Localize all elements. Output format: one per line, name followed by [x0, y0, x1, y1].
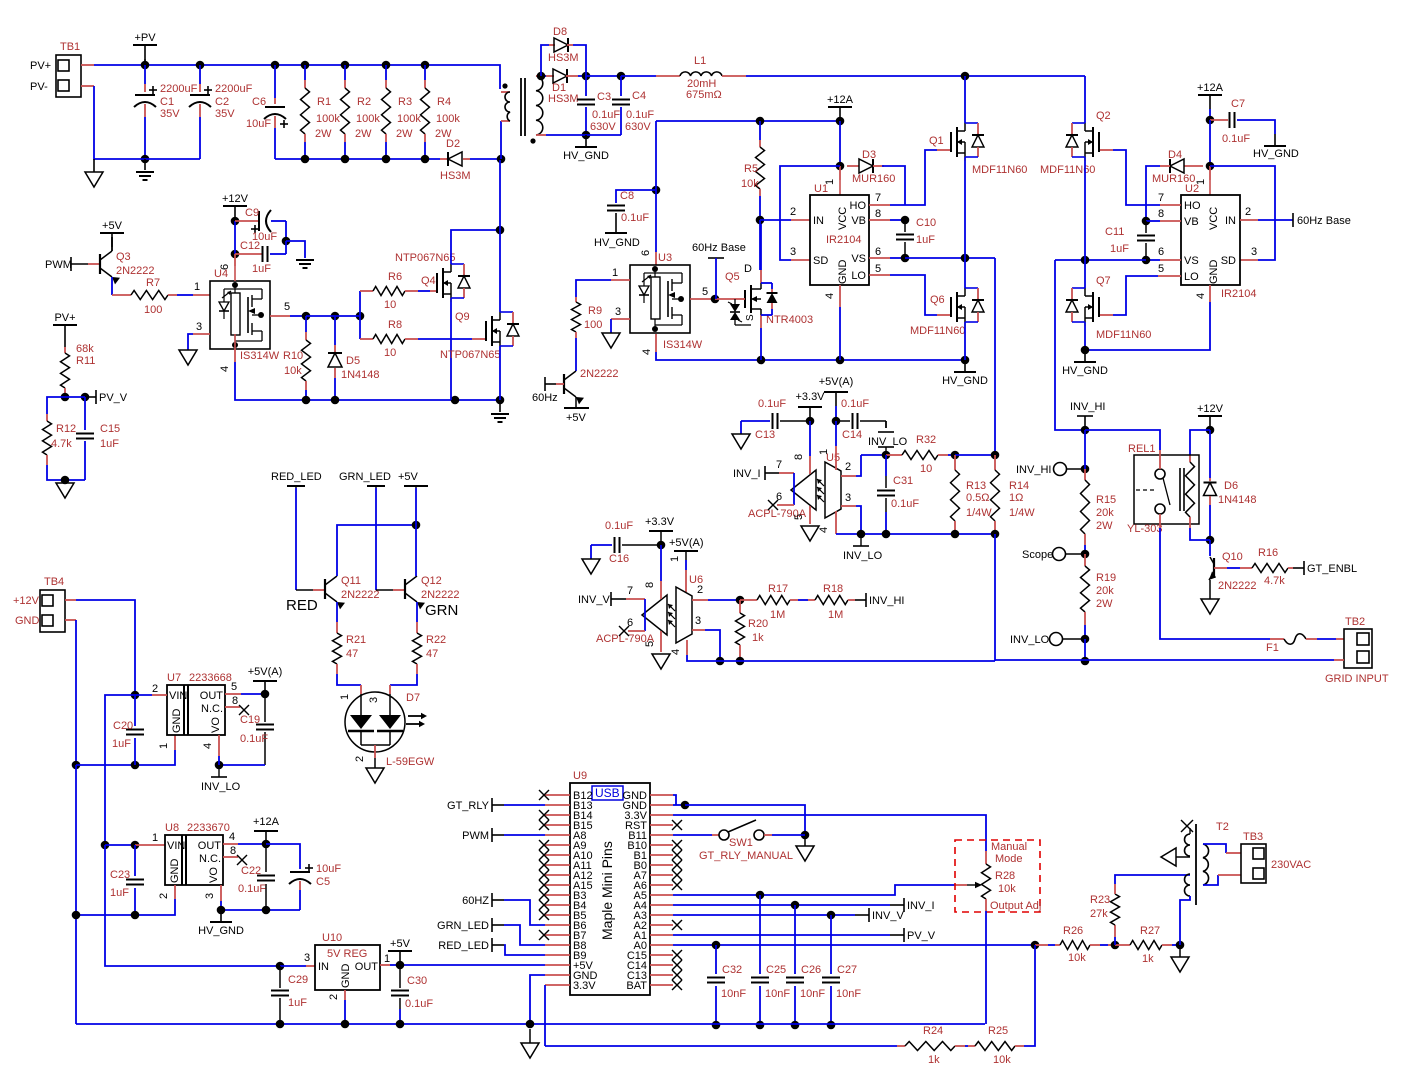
svg-text:N.C.: N.C. [199, 853, 221, 865]
svg-text:MDF11N60: MDF11N60 [972, 164, 1027, 176]
svg-text:INV_I: INV_I [907, 900, 935, 912]
svg-text:TB1: TB1 [60, 41, 80, 53]
svg-text:10nF: 10nF [765, 988, 790, 1000]
svg-text:SW1: SW1 [729, 837, 753, 849]
svg-text:3: 3 [790, 246, 796, 258]
svg-text:60Hz: 60Hz [532, 392, 558, 404]
svg-text:C4: C4 [632, 90, 646, 102]
svg-text:0.1uF: 0.1uF [841, 398, 869, 410]
svg-text:10: 10 [384, 347, 396, 359]
svg-text:5: 5 [702, 286, 708, 298]
svg-text:HV_GND: HV_GND [1062, 365, 1108, 377]
svg-text:IS314W: IS314W [240, 350, 280, 362]
svg-text:PV_V: PV_V [907, 930, 936, 942]
svg-text:1/4W: 1/4W [966, 507, 992, 519]
svg-text:TB3: TB3 [1243, 831, 1263, 843]
svg-text:10uF: 10uF [316, 863, 341, 875]
svg-text:10nF: 10nF [836, 988, 861, 1000]
svg-text:PV_V: PV_V [99, 392, 128, 404]
svg-text:3: 3 [695, 615, 701, 627]
svg-text:VIN: VIN [167, 840, 185, 852]
svg-text:3: 3 [845, 492, 851, 504]
svg-text:1uF: 1uF [1110, 243, 1129, 255]
svg-text:1N4148: 1N4148 [341, 369, 380, 381]
svg-text:+12A: +12A [1197, 82, 1224, 94]
svg-text:U9: U9 [573, 770, 587, 782]
svg-text:8: 8 [232, 695, 238, 707]
svg-text:4.7k: 4.7k [1264, 575, 1285, 587]
svg-text:VO: VO [210, 717, 222, 733]
svg-text:GT_RLY_MANUAL: GT_RLY_MANUAL [699, 850, 793, 862]
svg-text:REL1: REL1 [1128, 443, 1156, 455]
svg-text:R4: R4 [437, 96, 451, 108]
svg-text:RED: RED [286, 597, 318, 614]
svg-text:27k: 27k [1090, 908, 1108, 920]
svg-text:C26: C26 [801, 964, 821, 976]
svg-text:3: 3 [196, 321, 202, 333]
svg-text:PWM: PWM [45, 259, 72, 271]
svg-text:+12V: +12V [13, 595, 40, 607]
svg-text:D6: D6 [1224, 480, 1238, 492]
svg-text:4: 4 [202, 743, 214, 749]
svg-text:R14: R14 [1009, 480, 1029, 492]
svg-text:+5V: +5V [566, 412, 587, 424]
svg-text:+5V(A): +5V(A) [669, 537, 704, 549]
svg-text:Mode: Mode [995, 853, 1023, 865]
svg-text:1uF: 1uF [100, 438, 119, 450]
svg-text:BAT: BAT [626, 980, 647, 992]
svg-text:0.1uF: 0.1uF [238, 883, 266, 895]
svg-text:5: 5 [793, 514, 805, 520]
svg-text:D3: D3 [862, 149, 876, 161]
svg-text:RED_LED: RED_LED [271, 471, 322, 483]
svg-text:10: 10 [384, 299, 396, 311]
svg-text:D4: D4 [1168, 149, 1182, 161]
svg-text:35V: 35V [215, 108, 235, 120]
svg-text:MUR160: MUR160 [852, 173, 895, 185]
svg-text:Q12: Q12 [421, 575, 442, 587]
svg-text:GRN_LED: GRN_LED [339, 471, 391, 483]
svg-text:NTP067N65: NTP067N65 [395, 252, 456, 264]
svg-text:R11: R11 [76, 355, 95, 367]
svg-text:C1: C1 [160, 96, 174, 108]
svg-text:GRN_LED: GRN_LED [437, 920, 489, 932]
svg-text:2: 2 [152, 683, 158, 695]
svg-text:INV_V: INV_V [578, 594, 610, 606]
svg-text:VB: VB [1184, 216, 1199, 228]
svg-text:2N2222: 2N2222 [116, 265, 155, 277]
svg-text:C27: C27 [837, 964, 857, 976]
svg-text:10nF: 10nF [800, 988, 825, 1000]
svg-text:OUT: OUT [198, 840, 222, 852]
svg-text:PV+: PV+ [30, 60, 51, 72]
svg-text:3: 3 [304, 952, 310, 964]
svg-text:1: 1 [384, 953, 390, 965]
svg-text:GT_ENBL: GT_ENBL [1307, 563, 1357, 575]
svg-text:4: 4 [229, 831, 235, 843]
svg-text:4: 4 [641, 349, 653, 355]
svg-text:0.1uF: 0.1uF [1222, 133, 1250, 145]
svg-text:47: 47 [346, 648, 358, 660]
svg-text:2N2222: 2N2222 [421, 589, 460, 601]
svg-text:2233670: 2233670 [187, 822, 230, 834]
svg-text:HV_GND: HV_GND [563, 150, 609, 162]
svg-text:C12: C12 [240, 240, 260, 252]
svg-text:2: 2 [790, 206, 796, 218]
svg-text:2200uF: 2200uF [215, 83, 253, 95]
svg-text:1uF: 1uF [252, 263, 271, 275]
svg-text:C13: C13 [755, 429, 775, 441]
svg-text:R1: R1 [317, 96, 331, 108]
svg-text:IS314W: IS314W [663, 339, 703, 351]
svg-text:2N2222: 2N2222 [341, 589, 380, 601]
svg-text:R7: R7 [146, 277, 160, 289]
svg-text:+12V: +12V [1197, 403, 1224, 415]
svg-text:R25: R25 [988, 1025, 1008, 1037]
svg-text:Q6: Q6 [930, 294, 945, 306]
svg-text:HV_GND: HV_GND [1253, 148, 1299, 160]
svg-text:SD: SD [813, 255, 828, 267]
svg-text:60Hz Base: 60Hz Base [692, 242, 746, 254]
svg-text:675mΩ: 675mΩ [686, 89, 722, 101]
svg-text:Q2: Q2 [1096, 110, 1111, 122]
svg-text:C16: C16 [609, 553, 629, 565]
svg-text:35V: 35V [160, 108, 180, 120]
svg-text:R27: R27 [1140, 925, 1160, 937]
svg-text:R6: R6 [388, 271, 402, 283]
svg-text:VIN: VIN [169, 690, 187, 702]
svg-text:0.1uF: 0.1uF [240, 733, 268, 745]
svg-text:+5V: +5V [398, 471, 419, 483]
svg-text:5: 5 [231, 681, 237, 693]
svg-text:6: 6 [627, 617, 633, 629]
svg-text:7: 7 [875, 192, 881, 204]
svg-text:1Ω: 1Ω [1009, 492, 1023, 504]
svg-text:Manual: Manual [991, 841, 1027, 853]
svg-text:C30: C30 [407, 975, 427, 987]
svg-text:INV_LO: INV_LO [201, 781, 241, 793]
svg-text:0.1uF: 0.1uF [605, 520, 633, 532]
svg-text:GND: GND [1208, 260, 1220, 285]
svg-text:1uF: 1uF [112, 738, 131, 750]
svg-text:+5V: +5V [102, 220, 123, 232]
svg-text:R2: R2 [357, 96, 371, 108]
svg-text:100k: 100k [397, 113, 421, 125]
svg-text:0.1uF: 0.1uF [621, 212, 649, 224]
svg-text:7: 7 [776, 459, 782, 471]
svg-text:C3: C3 [597, 91, 611, 103]
svg-text:C19: C19 [240, 714, 260, 726]
svg-text:+5V(A): +5V(A) [819, 376, 854, 388]
svg-text:1uF: 1uF [288, 997, 307, 1009]
svg-text:8: 8 [793, 454, 805, 460]
svg-text:N.C.: N.C. [201, 703, 223, 715]
svg-text:C7: C7 [1231, 98, 1245, 110]
svg-text:U3: U3 [658, 252, 672, 264]
svg-text:INV_HI: INV_HI [869, 595, 904, 607]
svg-text:Q11: Q11 [341, 575, 361, 587]
svg-text:8: 8 [644, 582, 656, 588]
svg-text:0.5Ω: 0.5Ω [966, 492, 990, 504]
svg-text:2W: 2W [1096, 520, 1113, 532]
svg-text:S: S [745, 314, 756, 321]
svg-text:5: 5 [284, 301, 290, 313]
svg-text:Q3: Q3 [116, 251, 131, 263]
svg-text:INV_LO: INV_LO [1010, 634, 1050, 646]
svg-text:4: 4 [1195, 293, 1207, 299]
svg-text:+12A: +12A [253, 816, 280, 828]
svg-text:5: 5 [875, 263, 881, 275]
svg-text:C25: C25 [766, 964, 786, 976]
svg-text:LO: LO [1184, 271, 1199, 283]
svg-text:60Hz Base: 60Hz Base [1297, 215, 1351, 227]
svg-text:D8: D8 [553, 26, 567, 38]
svg-text:HV_GND: HV_GND [198, 925, 244, 937]
svg-text:INV_V: INV_V [872, 910, 904, 922]
svg-text:5: 5 [644, 641, 656, 647]
svg-text:+3.3V: +3.3V [795, 391, 825, 403]
svg-text:U10: U10 [322, 932, 342, 944]
svg-text:47: 47 [426, 648, 438, 660]
svg-text:1: 1 [669, 556, 681, 562]
svg-text:MDF11N60: MDF11N60 [1096, 329, 1151, 341]
svg-text:20k: 20k [1096, 507, 1114, 519]
svg-text:R17: R17 [768, 583, 788, 595]
svg-text:PWM: PWM [462, 830, 489, 842]
svg-text:R9: R9 [588, 305, 602, 317]
svg-text:R10: R10 [283, 350, 303, 362]
svg-text:INV_I: INV_I [733, 468, 761, 480]
svg-text:1: 1 [339, 694, 351, 700]
svg-text:C20: C20 [113, 720, 133, 732]
svg-text:4: 4 [818, 527, 830, 533]
svg-text:630V: 630V [590, 121, 616, 133]
svg-text:1: 1 [158, 743, 170, 749]
svg-text:HV_GND: HV_GND [594, 237, 640, 249]
svg-text:2200uF: 2200uF [160, 83, 198, 95]
svg-text:Maple Mini Pins: Maple Mini Pins [599, 841, 615, 940]
svg-text:+3.3V: +3.3V [645, 516, 675, 528]
svg-text:C15: C15 [100, 423, 120, 435]
svg-text:100k: 100k [316, 113, 340, 125]
svg-text:VCC: VCC [837, 207, 849, 230]
svg-text:GRN: GRN [425, 602, 458, 619]
svg-text:8: 8 [1158, 208, 1164, 220]
svg-text:TB4: TB4 [44, 576, 64, 588]
svg-text:4: 4 [219, 366, 231, 372]
svg-text:6: 6 [1158, 246, 1164, 258]
svg-text:20k: 20k [1096, 585, 1114, 597]
svg-text:VO: VO [208, 867, 220, 883]
svg-text:D5: D5 [346, 355, 360, 367]
svg-text:VB: VB [851, 215, 866, 227]
svg-text:R20: R20 [748, 618, 768, 630]
svg-text:Q10: Q10 [1222, 551, 1243, 563]
svg-text:C6: C6 [252, 96, 266, 108]
svg-text:R18: R18 [823, 583, 843, 595]
svg-text:1/4W: 1/4W [1009, 507, 1035, 519]
svg-text:Q1: Q1 [929, 135, 944, 147]
svg-text:YL-303: YL-303 [1127, 523, 1162, 535]
svg-text:1k: 1k [928, 1054, 940, 1066]
svg-text:R15: R15 [1096, 494, 1116, 506]
svg-text:R28: R28 [995, 870, 1015, 882]
svg-text:2N2222: 2N2222 [580, 368, 619, 380]
svg-text:R23: R23 [1090, 894, 1110, 906]
svg-text:2: 2 [158, 893, 170, 899]
svg-text:INV_HI: INV_HI [1016, 464, 1051, 476]
svg-text:6: 6 [219, 264, 231, 270]
svg-text:OUT: OUT [200, 690, 224, 702]
svg-text:LO: LO [851, 270, 866, 282]
svg-text:U2: U2 [1185, 183, 1199, 195]
svg-text:C22: C22 [241, 865, 261, 877]
svg-text:+5V(A): +5V(A) [248, 666, 283, 678]
svg-text:3: 3 [368, 697, 380, 703]
svg-text:GRID INPUT: GRID INPUT [1325, 673, 1389, 685]
svg-text:GND: GND [340, 964, 352, 989]
svg-text:R16: R16 [1258, 547, 1278, 559]
svg-text:1uF: 1uF [110, 887, 129, 899]
svg-text:C2: C2 [215, 96, 229, 108]
svg-text:3: 3 [1251, 246, 1257, 258]
svg-text:4: 4 [824, 293, 836, 299]
svg-text:HS3M: HS3M [440, 170, 471, 182]
svg-text:1k: 1k [1142, 953, 1154, 965]
svg-text:10k: 10k [1068, 952, 1086, 964]
svg-text:Q7: Q7 [1096, 275, 1111, 287]
svg-text:D7: D7 [406, 692, 420, 704]
svg-text:C10: C10 [916, 217, 936, 229]
svg-text:HV_GND: HV_GND [942, 375, 988, 387]
svg-text:0.1uF: 0.1uF [405, 998, 433, 1010]
svg-text:+5V: +5V [390, 938, 411, 950]
svg-text:1M: 1M [828, 609, 843, 621]
svg-text:1N4148: 1N4148 [1218, 494, 1257, 506]
svg-text:C23: C23 [110, 869, 130, 881]
svg-text:R26: R26 [1063, 925, 1083, 937]
svg-text:INV_LO: INV_LO [843, 550, 883, 562]
svg-text:8: 8 [230, 845, 236, 857]
svg-text:+12V: +12V [222, 193, 249, 205]
svg-text:F1: F1 [1266, 642, 1279, 654]
svg-text:0.1uF: 0.1uF [592, 109, 620, 121]
svg-text:PV+: PV+ [54, 312, 75, 324]
svg-text:R8: R8 [388, 319, 402, 331]
svg-text:2233668: 2233668 [189, 672, 232, 684]
svg-text:Q4: Q4 [421, 275, 436, 287]
svg-text:2: 2 [697, 584, 703, 596]
svg-text:2: 2 [354, 756, 366, 762]
svg-text:SD: SD [1221, 255, 1236, 267]
svg-text:10k: 10k [741, 178, 759, 190]
svg-text:GND: GND [169, 859, 181, 884]
svg-text:60HZ: 60HZ [462, 895, 489, 907]
svg-text:U7: U7 [167, 672, 181, 684]
svg-text:1: 1 [152, 832, 158, 844]
svg-text:10uF: 10uF [246, 118, 271, 130]
svg-text:6: 6 [640, 250, 652, 256]
svg-text:U8: U8 [165, 822, 179, 834]
svg-text:10: 10 [920, 463, 932, 475]
svg-text:MDF11N60: MDF11N60 [910, 325, 965, 337]
svg-text:8: 8 [875, 208, 881, 220]
svg-text:+12A: +12A [827, 94, 854, 106]
svg-text:R19: R19 [1096, 572, 1116, 584]
svg-text:5V REG: 5V REG [327, 948, 367, 960]
svg-text:Q9: Q9 [455, 311, 470, 323]
svg-text:Q5: Q5 [725, 271, 740, 283]
svg-text:C31: C31 [893, 475, 913, 487]
svg-text:3.3V: 3.3V [573, 980, 596, 992]
svg-text:2W: 2W [355, 128, 372, 140]
svg-text:INV_HI: INV_HI [1070, 401, 1105, 413]
svg-text:100k: 100k [356, 113, 380, 125]
svg-text:100: 100 [144, 304, 162, 316]
svg-text:7: 7 [1158, 192, 1164, 204]
svg-text:OUT: OUT [355, 961, 379, 973]
svg-text:1k: 1k [752, 632, 764, 644]
svg-text:2: 2 [845, 461, 851, 473]
svg-text:0.1uF: 0.1uF [626, 109, 654, 121]
svg-text:0.1uF: 0.1uF [758, 398, 786, 410]
svg-text:D2: D2 [446, 138, 460, 150]
svg-text:R32: R32 [916, 434, 936, 446]
svg-text:1: 1 [818, 449, 830, 455]
svg-text:2W: 2W [315, 128, 332, 140]
svg-text:R12: R12 [56, 423, 76, 435]
svg-text:T2: T2 [1216, 821, 1229, 833]
svg-text:R21: R21 [346, 634, 366, 646]
svg-text:IN: IN [1225, 215, 1236, 227]
svg-text:HS3M: HS3M [548, 52, 579, 64]
svg-text:VS: VS [1184, 255, 1199, 267]
svg-text:R3: R3 [398, 96, 412, 108]
svg-text:R13: R13 [966, 480, 986, 492]
svg-text:Scope: Scope [1022, 549, 1053, 561]
svg-text:USB: USB [595, 786, 620, 800]
svg-text:NTR4003: NTR4003 [766, 314, 813, 326]
svg-text:10k: 10k [993, 1054, 1011, 1066]
svg-text:230VAC: 230VAC [1271, 859, 1311, 871]
svg-text:C9: C9 [245, 207, 259, 219]
svg-text:3: 3 [204, 893, 216, 899]
svg-text:10k: 10k [284, 365, 302, 377]
svg-text:0.1uF: 0.1uF [891, 498, 919, 510]
svg-text:4.7k: 4.7k [51, 438, 72, 450]
svg-text:2W: 2W [396, 128, 413, 140]
svg-text:6: 6 [875, 246, 881, 258]
svg-text:2: 2 [1245, 206, 1251, 218]
svg-text:C32: C32 [722, 964, 742, 976]
svg-text:MDF11N60: MDF11N60 [1040, 164, 1095, 176]
svg-text:100: 100 [584, 319, 602, 331]
svg-text:5: 5 [1158, 263, 1164, 275]
svg-text:L1: L1 [694, 55, 706, 67]
svg-text:HO: HO [850, 200, 867, 212]
svg-text:C8: C8 [620, 190, 634, 202]
svg-text:IN: IN [318, 961, 329, 973]
svg-text:NTP067N65: NTP067N65 [440, 349, 501, 361]
svg-text:U1: U1 [814, 183, 828, 195]
svg-text:6: 6 [776, 491, 782, 503]
svg-text:IR2104: IR2104 [1221, 288, 1256, 300]
svg-text:GND: GND [837, 260, 849, 285]
svg-text:R24: R24 [923, 1025, 943, 1037]
svg-text:IR2104: IR2104 [826, 234, 861, 246]
svg-text:1M: 1M [770, 609, 785, 621]
svg-text:Output Adj: Output Adj [990, 900, 1041, 912]
